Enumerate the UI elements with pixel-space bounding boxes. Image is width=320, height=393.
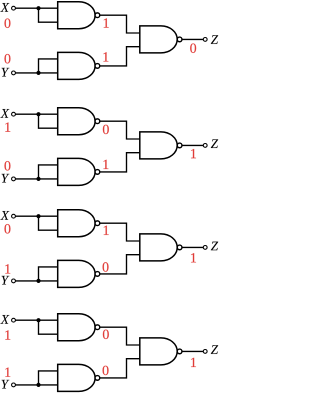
junction on Y wire [36,71,40,75]
label Y (input, stage 4) [2,380,10,389]
input terminal Y [12,177,16,181]
value NOT Y = 0 [103,262,109,271]
NAND gate 1B (Y inverter) [58,52,100,79]
value Z=0 [190,43,196,52]
junction on X wire [36,214,40,218]
wire X to gate top input [15,113,57,115]
wire gate 1A output to gate 1C top input [100,15,140,33]
value Z=1 [191,149,196,158]
wire X branch to gate lower input [39,320,58,334]
junction on Y wire [36,279,40,283]
wire gate 2B output to gate 2C bottom input [100,153,140,172]
NAND gate 4C (output NAND) [140,338,182,365]
value Y=0 [5,54,11,63]
value NOT Y = 0 [103,366,109,375]
NAND gate 3A (X inverter) [58,210,100,237]
value NOT X = 0 [103,125,109,134]
value Y=1 [5,264,10,273]
label Z (output, stage 4) [211,345,218,354]
NAND gate 4A (X inverter) [58,314,100,341]
wire gate 3C output to Z terminal [182,246,203,248]
input terminal Y [12,71,16,75]
wire Y to gate bottom input [15,72,57,74]
wire X to gate top input [15,215,57,217]
label Z (output, stage 3) [211,242,218,251]
NAND gate 1A (X inverter) [58,2,100,29]
value Y=0 [5,161,11,170]
label X (input, stage 2) [0,109,9,118]
label Y (input, stage 2) [2,174,10,183]
wire Y to gate bottom input [15,280,57,282]
wire Y to gate bottom input [15,384,57,386]
output terminal Z [203,144,207,148]
wire X branch to gate lower input [39,216,58,230]
value X=0 [5,18,11,27]
value NOT Y = 1 [103,160,108,169]
input terminal X [12,214,16,218]
NAND gate 3C (output NAND) [140,234,182,261]
wire gate 1C output to Z terminal [182,38,203,40]
output terminal Z [203,350,207,354]
wire gate 4C output to Z terminal [182,350,203,352]
wire gate 4B output to gate 4C bottom input [100,359,140,378]
wire Y branch to gate upper input [39,267,58,281]
junction on X wire [36,112,40,116]
wire gate 3A output to gate 3C top input [100,223,140,241]
label X (input, stage 1) [0,3,9,12]
label Z (output, stage 2) [211,139,218,148]
NAND gate 2C (output NAND) [140,132,182,159]
wire Y to gate bottom input [15,178,57,180]
junction on Y wire [36,383,40,387]
value X=0 [5,224,11,233]
value NOT X = 1 [104,226,109,235]
input terminal X [12,6,16,10]
value Z=1 [191,358,196,367]
NAND gate 4B (Y inverter) [58,364,100,391]
NAND gate 3B (Y inverter) [58,260,100,287]
output terminal Z [203,246,207,250]
label Z (output, stage 1) [211,35,218,44]
wire gate 1B output to gate 1C bottom input [100,47,140,66]
NAND gate 2A (X inverter) [58,108,100,135]
input terminal X [12,112,16,116]
value NOT X = 1 [104,18,109,27]
label Y (input, stage 3) [2,276,10,285]
wire X branch to gate lower input [39,114,58,128]
NAND gate 2B (Y inverter) [58,158,100,185]
junction on X wire [36,6,40,10]
wire Y branch to gate upper input [39,59,58,73]
wire gate 4A output to gate 4C top input [100,327,140,345]
input terminal Y [12,383,16,387]
wire gate 2C output to Z terminal [182,144,203,146]
output terminal Z [203,38,207,42]
value Y=1 [5,368,10,377]
wire X to gate top input [15,319,57,321]
wire Y branch to gate upper input [39,165,58,179]
value Z=1 [191,253,196,262]
junction on Y wire [36,177,40,181]
wire gate 3B output to gate 3C bottom input [100,255,140,274]
value NOT Y = 1 [103,52,108,61]
NAND gate 1C (output NAND) [140,26,182,53]
value NOT X = 0 [103,330,109,339]
label X (input, stage 4) [0,315,9,324]
label X (input, stage 3) [0,211,9,220]
label Y (input, stage 1) [2,68,10,77]
wire Y branch to gate upper input [39,371,58,385]
wire X branch to gate lower input [39,8,58,22]
input terminal Y [12,279,16,283]
wire gate 2A output to gate 2C top input [100,121,140,139]
wire X to gate top input [15,7,57,9]
value X=1 [5,122,10,131]
input terminal X [12,318,16,322]
value X=1 [5,330,10,339]
junction on X wire [36,318,40,322]
